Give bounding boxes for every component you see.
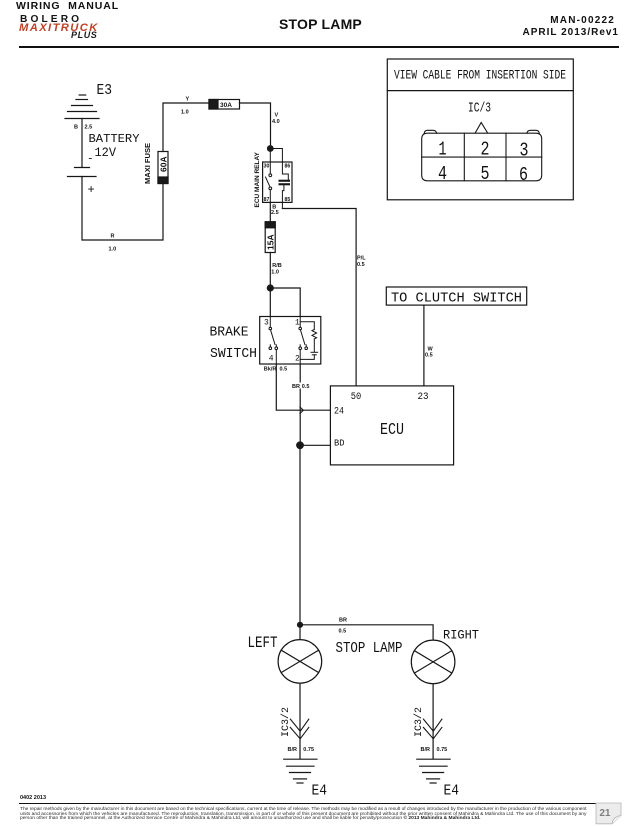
wire label P/L 0.5 — [357, 256, 366, 269]
svg-text:2.5: 2.5 — [271, 210, 279, 216]
svg-text:-: - — [87, 154, 94, 166]
wire relay 85 to ECU pin 50 — [282, 209, 356, 386]
svg-text:IC3/2: IC3/2 — [413, 707, 425, 737]
logo PLUS — [71, 30, 97, 40]
wire label BR 0.5 — [339, 618, 347, 635]
connector pointer triangle — [475, 123, 487, 133]
VIEW CABLE box — [387, 59, 573, 200]
svg-text:LEFT: LEFT — [248, 634, 278, 652]
footer disclaimer line 1 — [20, 806, 587, 811]
svg-text:STOP LAMP: STOP LAMP — [336, 641, 403, 657]
wire fuse 30A to relay node — [240, 103, 271, 149]
label BRAKE SWITCH — [210, 325, 258, 363]
svg-text:87: 87 — [264, 197, 270, 203]
wire label B 2.5 — [74, 125, 92, 131]
junction node A — [267, 145, 274, 152]
svg-text:0.5: 0.5 — [357, 262, 365, 268]
brake switch left contact — [269, 317, 278, 365]
connector top tabs — [424, 130, 436, 133]
svg-text:BR: BR — [292, 384, 300, 390]
wire label W 0.5 — [425, 347, 434, 359]
wire node C to ECU pin BD — [300, 444, 330, 446]
svg-text:2: 2 — [481, 139, 490, 161]
svg-text:TO CLUTCH SWITCH: TO CLUTCH SWITCH — [391, 292, 522, 307]
svg-text:6: 6 — [519, 164, 528, 186]
svg-text:85: 85 — [285, 197, 291, 203]
header title WIRING MANUAL — [16, 0, 119, 12]
svg-text:30: 30 — [264, 164, 270, 170]
VIEW CABLE divider — [387, 90, 573, 92]
junction node C — [296, 441, 304, 449]
svg-text:0.5: 0.5 — [302, 384, 310, 390]
wire clutch switch to ECU pin 23 — [423, 305, 425, 386]
svg-text:2.5: 2.5 — [85, 125, 93, 131]
svg-text:24: 24 — [334, 406, 344, 418]
svg-text:VIEW CABLE FROM INSERTION SIDE: VIEW CABLE FROM INSERTION SIDE — [394, 68, 566, 83]
page number 21 — [600, 808, 611, 819]
wire brake pin2 down — [299, 364, 301, 445]
wire fuse 15A to brake node — [269, 253, 271, 289]
svg-text:B/R: B/R — [288, 747, 298, 753]
relay K1 box — [263, 162, 292, 202]
logo BOLERO — [20, 14, 82, 25]
svg-text:60A: 60A — [159, 156, 169, 172]
wire node D to right lamp — [300, 625, 433, 640]
wire label V 4.0 — [272, 113, 280, 126]
svg-text:1.0: 1.0 — [181, 110, 189, 116]
junction node D — [297, 622, 303, 628]
connector IC3/2 right chevrons — [423, 719, 442, 739]
footer disclaimer line 2 — [20, 811, 586, 816]
svg-text:86: 86 — [285, 164, 291, 170]
svg-text:IC/3: IC/3 — [468, 102, 491, 117]
svg-text:12V: 12V — [95, 145, 117, 160]
junction node B — [267, 284, 274, 291]
svg-text:+: + — [88, 183, 95, 197]
svg-text:3: 3 — [264, 319, 269, 328]
svg-text:4: 4 — [269, 355, 274, 364]
fuse F1 60A MAXI FUSE — [158, 152, 168, 184]
svg-text:E4: E4 — [312, 784, 328, 800]
battery labels — [87, 132, 140, 197]
TO CLUTCH SWITCH box — [386, 287, 526, 305]
svg-text:SWITCH: SWITCH — [210, 346, 257, 362]
page number box — [595, 802, 624, 826]
doc date APRIL 2013/Rev1 — [522, 27, 619, 38]
brake switch internal capacitor — [300, 352, 317, 359]
wire label B 2.5 — [271, 205, 279, 217]
wire left lamp to connector — [299, 683, 301, 759]
brake switch S1 box — [260, 317, 321, 365]
wire node D to left lamp — [299, 625, 301, 640]
svg-text:R: R — [111, 234, 115, 240]
svg-text:BD: BD — [334, 439, 345, 449]
svg-text:0.75: 0.75 — [437, 747, 448, 753]
wire node C to lamps node D — [299, 445, 301, 625]
connector grid — [422, 133, 542, 181]
svg-text:ECU MAIN RELAY: ECU MAIN RELAY — [254, 151, 261, 207]
wire label Bk/R 0.5 — [263, 365, 287, 372]
footer doc code 0402 2013 — [20, 795, 46, 801]
svg-text:BR: BR — [339, 618, 347, 624]
svg-text:ECU: ECU — [380, 421, 404, 440]
svg-text:23: 23 — [418, 391, 429, 403]
svg-text:B: B — [74, 125, 78, 131]
wire brake pin4 to ECU pin 24 — [276, 364, 330, 410]
ground E4 right — [417, 759, 450, 783]
page title STOP LAMP — [279, 16, 362, 32]
brake switch right contact — [299, 317, 308, 365]
ground E4 left — [284, 759, 317, 783]
lamp RIGHT stop lamp — [411, 640, 455, 684]
wire node B to brake switch pins 3 and 1 — [269, 288, 271, 317]
svg-text:Y: Y — [186, 97, 190, 103]
svg-text:1.0: 1.0 — [109, 247, 117, 253]
wire fuse 60A to fuse 30A — [163, 103, 209, 152]
wire relay 87 to fuse 15A — [269, 202, 271, 221]
svg-text:B/R: B/R — [421, 747, 431, 753]
wire label R/B 1.0 — [271, 263, 282, 276]
logo MAXITRUCK — [19, 22, 99, 34]
svg-text:0.5: 0.5 — [280, 366, 288, 372]
svg-text:30A: 30A — [220, 102, 232, 109]
svg-text:0.75: 0.75 — [303, 747, 314, 753]
svg-text:4: 4 — [438, 163, 447, 185]
svg-text:4.0: 4.0 — [272, 119, 280, 125]
svg-text:50: 50 — [351, 391, 362, 403]
wire label B/R 0.75 left — [288, 747, 315, 753]
svg-text:E3: E3 — [97, 83, 113, 99]
svg-text:1: 1 — [295, 319, 300, 328]
wire ground to battery — [81, 119, 83, 168]
svg-text:BATTERY: BATTERY — [89, 132, 141, 146]
brake switch internal resistor — [300, 322, 316, 352]
svg-text:IC3/2: IC3/2 — [280, 707, 292, 737]
svg-text:0.5: 0.5 — [339, 628, 347, 634]
lamp LEFT stop lamp — [278, 640, 322, 684]
fuse F2 30A — [209, 100, 240, 110]
svg-text:1.0: 1.0 — [271, 270, 279, 276]
svg-text:Bk/R: Bk/R — [264, 366, 277, 372]
ground E3 — [65, 95, 99, 119]
footer disclaimer line 3 — [20, 815, 480, 820]
connector IC/3 outline — [422, 133, 542, 181]
fuse F3 15A — [265, 222, 275, 253]
svg-text:15A: 15A — [266, 234, 276, 250]
header rule — [19, 46, 619, 48]
relay switch contact — [266, 149, 272, 203]
wire label R 1.0 — [109, 234, 117, 253]
doc number MAN-00222 — [550, 15, 615, 26]
svg-text:BRAKE: BRAKE — [210, 325, 249, 341]
svg-text:P/L: P/L — [357, 256, 366, 262]
footer rule — [19, 803, 621, 804]
wire label Y 1.0 — [181, 97, 190, 116]
svg-text:MAXI FUSE: MAXI FUSE — [143, 143, 152, 184]
svg-text:V: V — [275, 113, 279, 119]
relay coil — [270, 149, 290, 209]
svg-text:2: 2 — [295, 355, 300, 364]
svg-text:R/B: R/B — [272, 263, 282, 269]
ECU U1 box — [330, 386, 453, 465]
svg-text:3: 3 — [520, 140, 529, 162]
connector arrow on wire 24 — [300, 407, 304, 414]
wire battery to fuse 60A — [82, 177, 163, 241]
connector pin numbers — [438, 139, 529, 187]
wire right lamp to connector — [432, 684, 434, 759]
svg-text:RIGHT: RIGHT — [443, 629, 479, 643]
svg-text:0.5: 0.5 — [425, 353, 433, 359]
wire label B/R 0.75 right — [421, 747, 448, 753]
svg-text:E4: E4 — [444, 784, 460, 800]
wire label BR 0.5 — [292, 383, 310, 390]
battery BT1 — [68, 168, 97, 177]
svg-text:1: 1 — [439, 139, 447, 161]
connector IC3/2 left chevrons — [290, 719, 309, 739]
svg-text:5: 5 — [481, 163, 490, 185]
